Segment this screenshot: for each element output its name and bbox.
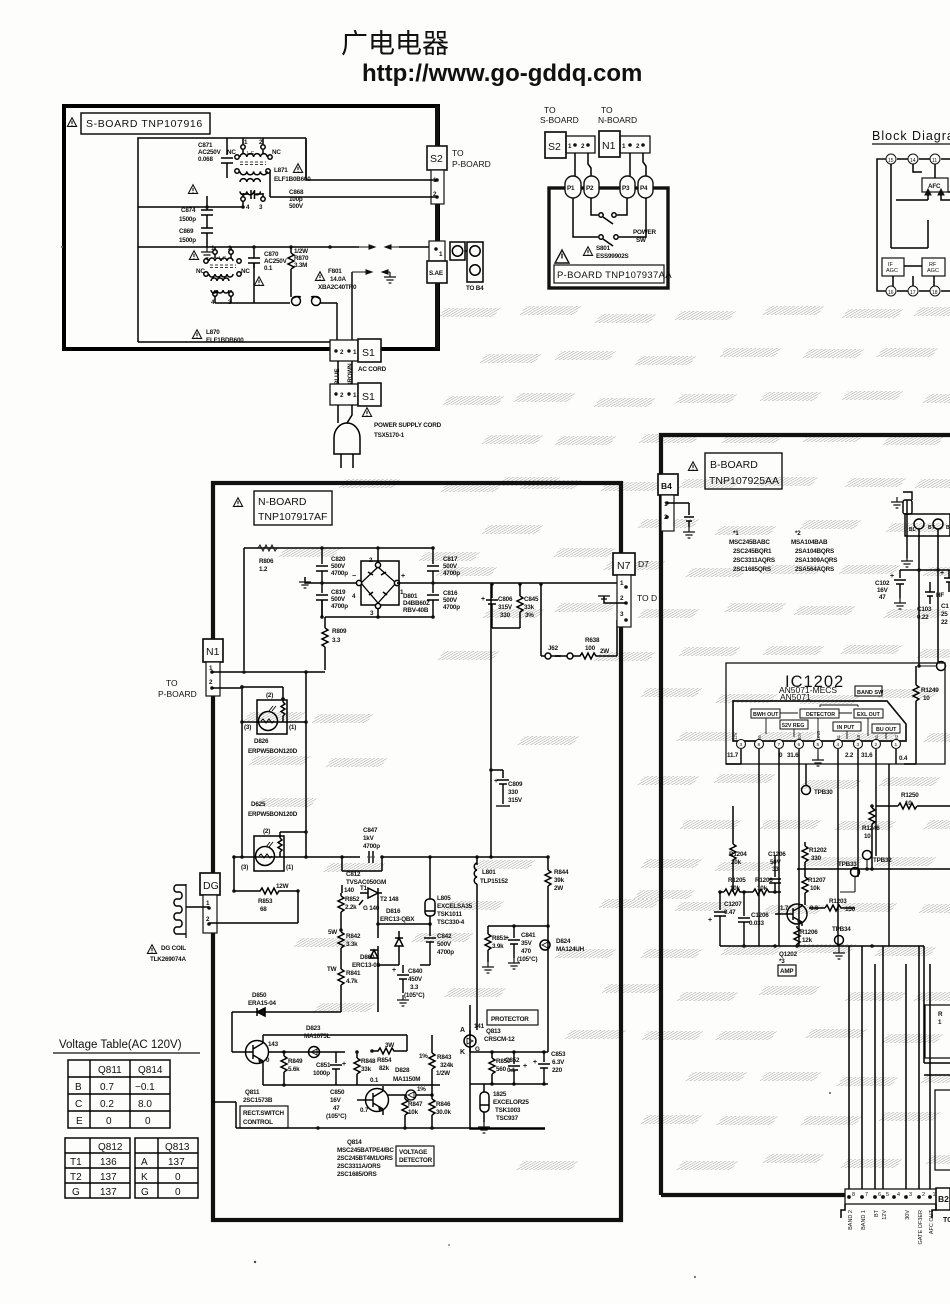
svg-text:N1: N1 [602,140,616,152]
svg-text:50V: 50V [770,859,782,866]
thyristor T1/T2 [359,888,382,905]
svg-text:AGC: AGC [886,268,898,274]
svg-text:ERC13-08: ERC13-08 [352,962,380,969]
svg-text:1: 1 [938,1019,942,1026]
svg-text:4: 4 [897,1192,900,1198]
svg-text:*2: *2 [795,530,801,537]
wire left drop x244 [243,548,245,670]
svg-text:AMP: AMP [780,968,793,975]
capacitor C840 [397,965,409,993]
RCA jack pair to B4 [450,242,483,282]
svg-text:8.0: 8.0 [138,1099,152,1110]
svg-text:137: 137 [100,1187,117,1198]
svg-text:0.47: 0.47 [724,909,736,916]
capacitor C1207 [714,892,726,946]
svg-text:C871: C871 [198,142,213,149]
diode D823 [309,1047,320,1058]
svg-text:8: 8 [852,1192,855,1198]
svg-text:R1250: R1250 [901,792,919,799]
svg-text:G: G [72,1187,80,1198]
svg-text:R638: R638 [585,637,600,644]
svg-text:Q814: Q814 [138,1065,163,1076]
resistor R1206 [744,889,781,895]
resistor R1203 [809,905,855,911]
svg-text:*3: *3 [779,958,785,965]
svg-text:MSC245BABC: MSC245BABC [729,539,770,546]
wires S2 pins to filter [270,140,437,197]
svg-text:R: R [938,1011,943,1018]
svg-text:2SC245BQR1: 2SC245BQR1 [733,548,772,555]
svg-text:R809: R809 [332,628,347,635]
test point TPB30 [802,786,811,795]
svg-text:TO: TO [601,105,613,115]
wires S1 to S1 plug [338,361,352,384]
svg-text:Q811: Q811 [98,1065,122,1076]
svg-text:17: 17 [910,290,916,296]
wire x306 drop to coupler rail [305,672,307,857]
capacitor C853 [538,1052,550,1084]
voltage table Q812 [65,1138,130,1198]
svg-text:NC: NC [196,268,205,275]
L870 label [192,330,201,339]
svg-text:ERPW5BON120D: ERPW5BON120D [248,811,298,818]
svg-text:Q811: Q811 [245,1089,260,1096]
svg-text:C: C [75,1099,82,1110]
scan hatch smudges (decorative) [244,306,950,1170]
S801 label [583,247,592,256]
capacitor C847 [360,851,382,863]
svg-text:4700p: 4700p [363,843,380,850]
svg-text:D801: D801 [403,593,418,600]
RF AGC box [922,258,945,276]
inner circuit frame left [138,138,306,342]
svg-text:3: 3 [259,204,263,211]
svg-text:C868: C868 [289,189,304,196]
svg-text:MSC245BATPE4/BC: MSC245BATPE4/BC [337,1147,394,1154]
svg-text:P4: P4 [640,185,648,192]
test point TPB32 [863,851,872,860]
svg-text:141: 141 [474,1023,485,1030]
connector N1 (P-board side) [599,131,620,157]
right edge partial box B [935,1090,950,1170]
wire main B+ y584 [322,583,626,617]
svg-text:P2: P2 [586,185,594,192]
svg-text:C852: C852 [505,1057,520,1064]
svg-text:2: 2 [636,143,640,150]
wires tuner to caps [900,529,950,666]
inner box IN PUT [833,722,861,731]
ground below C869 [201,247,213,258]
svg-text:+: + [523,1063,527,1070]
svg-text:1000p: 1000p [313,1070,330,1077]
svg-text:R1204: R1204 [729,851,747,858]
svg-text:7: 7 [778,742,781,748]
svg-text:47: 47 [333,1105,340,1112]
svg-text:2.2: 2.2 [845,752,854,759]
svg-text:315V: 315V [508,797,523,804]
svg-text:33: 33 [772,866,779,873]
svg-text:+: + [708,917,712,924]
svg-text:1/2W: 1/2W [294,248,308,255]
transformer L870 winding [204,250,241,296]
inner box EXL OUT [854,709,883,718]
svg-text:2: 2 [581,143,585,150]
svg-text:26: 26 [757,735,762,740]
capacitor C1208 [738,892,750,946]
svg-text:C819: C819 [331,589,346,596]
svg-text:31.6: 31.6 [787,752,799,759]
wires bridge [378,548,399,617]
power supply cord plug [334,405,360,468]
B-BOARD border [661,435,950,1195]
wire C812 net verticals [378,898,430,1012]
resistor R1208 [794,926,800,946]
node circle right [937,662,946,671]
svg-text:500V: 500V [289,203,304,210]
svg-text:39k: 39k [554,877,565,884]
svg-text:C840: C840 [408,968,423,975]
wire x548 down to protector [547,926,549,1052]
right partial wires [924,946,950,1075]
svg-text:3: 3 [909,1192,912,1198]
svg-text:1: 1 [895,742,898,748]
svg-text:D4BB60Z: D4BB60Z [403,600,430,607]
svg-text:G: G [141,1187,149,1198]
capacitor C102 [894,570,906,598]
svg-text:6: 6 [798,742,801,748]
svg-text:TSC330-4: TSC330-4 [437,919,465,926]
svg-text:A: A [141,1157,148,1168]
svg-text:R842: R842 [346,933,361,940]
svg-text:L871: L871 [274,167,288,174]
B2 side hooks [841,1204,936,1218]
svg-text:POWER: POWER [633,229,656,236]
svg-text:DETECTOR: DETECTOR [399,1157,433,1164]
svg-text:L805: L805 [437,895,451,902]
svg-text:+: + [890,573,894,580]
capacitor C817 [427,548,439,583]
svg-text:30V: 30V [905,1210,911,1220]
resistor R1205 [720,889,744,895]
svg-text:R849: R849 [288,1058,303,1065]
svg-text:CRSCM-12: CRSCM-12 [484,1036,515,1043]
svg-text:18: 18 [932,290,938,296]
svg-text:E: E [76,1116,83,1127]
inner box 52V REG [780,720,808,729]
svg-text:S8: S8 [856,734,861,740]
capacitor C851 [330,1052,342,1085]
wire N1 pin1 row [212,672,325,857]
S-BOARD border [64,106,438,349]
svg-text:143: 143 [268,1041,279,1048]
svg-text:TO B4: TO B4 [466,285,484,292]
svg-text:12V: 12V [733,732,738,740]
svg-text:0.2: 0.2 [100,1099,114,1110]
svg-text:30V: 30V [797,732,802,740]
voltage table Q813 [135,1138,198,1198]
svg-text:−: − [352,573,356,580]
svg-text:TO: TO [452,148,464,158]
gnd stub N7 pin2 [604,596,626,603]
ground stub at C819 [305,577,322,583]
svg-text:R854: R854 [377,1057,392,1064]
svg-text:C820: C820 [331,556,346,563]
B2 box [936,1188,950,1210]
svg-text:BWH OUT: BWH OUT [753,712,779,718]
wire C819/C820 bottom joins rail [321,600,323,617]
svg-text:BT: BT [874,1209,880,1217]
svg-text:GATE OF3ER: GATE OF3ER [918,1210,924,1244]
svg-text:20k: 20k [731,859,742,866]
svg-text:0: 0 [175,1172,181,1183]
svg-text:136: 136 [100,1157,117,1168]
svg-text:16V: 16V [330,1097,342,1104]
photocoupler D826 [242,687,306,734]
svg-text:25: 25 [941,611,948,618]
thyristor Q813 [464,1035,476,1047]
diode D824 [540,940,550,950]
svg-text:D823: D823 [306,1025,321,1032]
svg-text:D7: D7 [638,559,649,569]
svg-text:4700p: 4700p [443,604,460,611]
svg-text:S1: S1 [362,347,375,359]
capacitor C841 [508,926,520,958]
svg-text:CONTROL: CONTROL [243,1119,273,1126]
transformer L871 winding A [235,145,272,201]
svg-text:1%: 1% [419,1053,428,1060]
voltage table Q811/Q814 [68,1060,170,1128]
svg-text:150: 150 [845,906,856,913]
svg-text:2SA1309AQRS: 2SA1309AQRS [795,557,837,564]
svg-text:3W: 3W [385,1042,394,1049]
svg-text:12V: 12V [882,1210,888,1220]
PROTECTOR enclosure [470,1005,545,1129]
svg-text:F801: F801 [328,268,342,275]
svg-text:TSC937: TSC937 [496,1115,519,1122]
resistor R1246 [869,806,875,869]
DG COIL label [147,945,156,954]
svg-text:TSX5170-1: TSX5170-1 [374,432,405,439]
Q812 transistor [366,1089,389,1112]
svg-text:500V: 500V [443,597,458,604]
svg-text:1: 1 [622,143,626,150]
svg-text:4.7k: 4.7k [346,978,358,985]
wire base row y1052 [269,1051,345,1053]
wire y926 C841 net [488,925,548,927]
inner box DETECTOR [800,709,839,718]
svg-text:330: 330 [500,612,511,619]
svg-text:B2: B2 [894,734,899,740]
svg-text:EXL OUT: EXL OUT [857,712,881,718]
P-BOARD label box [554,265,664,283]
svg-text:DG COIL: DG COIL [161,945,186,952]
svg-text:S2: S2 [548,141,561,153]
RECT SWITCH CONTROL box [240,1106,288,1128]
svg-text:S.AE: S.AE [429,270,443,277]
svg-text:AC250V: AC250V [198,149,222,156]
svg-text:+: + [481,596,485,603]
svg-text:33k: 33k [361,1066,372,1073]
svg-text:TNP107917AF: TNP107917AF [258,511,327,523]
svg-text:MSA104BAB: MSA104BAB [791,539,828,546]
svg-text:500V: 500V [331,563,346,570]
DG connector [200,873,220,933]
svg-text:3.9k: 3.9k [492,943,504,950]
svg-text:DG: DG [203,880,219,892]
bottom rails Q811 area [263,1035,440,1085]
svg-text:R847: R847 [408,1101,423,1108]
resistor R846 [429,1095,435,1128]
wire y869 [797,868,950,870]
svg-text:500V: 500V [437,941,452,948]
svg-text:P3: P3 [622,185,630,192]
svg-text:5.6k: 5.6k [288,1066,300,1073]
svg-text:5W: 5W [328,929,337,936]
capacitor C870 [248,255,260,268]
svg-text:http://www.go-gddq.com: http://www.go-gddq.com [362,60,642,87]
resistor R843 [429,1035,435,1095]
resistor R841 [338,967,344,1012]
svg-text:137: 137 [100,1172,117,1183]
svg-text:TPB32: TPB32 [873,857,892,864]
svg-text:11.7: 11.7 [727,752,739,759]
svg-text:0.7: 0.7 [100,1082,114,1093]
svg-text:10k: 10k [730,885,741,892]
connector S1 (cord side) [330,383,381,406]
svg-text:2SC3311A/ORS: 2SC3311A/ORS [337,1163,380,1170]
bottom rail y946 [720,945,924,947]
svg-text:0.1: 0.1 [507,1067,516,1074]
svg-text:1500p: 1500p [179,237,196,244]
svg-text:31.6: 31.6 [861,752,873,759]
plug P3 [620,176,635,198]
wire C871 top [226,138,228,155]
B-BOARD label box [705,453,782,489]
svg-text:S-BOARD: S-BOARD [540,115,579,125]
svg-text:Q812: Q812 [98,1142,123,1153]
svg-text:1825: 1825 [493,1091,507,1098]
connector S.AE [427,241,447,283]
svg-text:C841: C841 [521,932,536,939]
svg-text:TLK269074A: TLK269074A [150,956,186,963]
PROTECTOR label box [487,1010,538,1025]
svg-text:L870: L870 [206,329,220,336]
connector S1 (AC cord, on board) [330,339,381,362]
svg-text:1500p: 1500p [179,216,196,223]
svg-text:MA1075L: MA1075L [304,1033,331,1040]
resistor R842 [338,930,344,967]
svg-text:2W: 2W [554,885,563,892]
svg-text:IN PUT: IN PUT [837,725,855,731]
S-BOARD label box [81,113,210,134]
svg-text:33k: 33k [524,604,535,611]
svg-text:T2 148: T2 148 [380,896,399,903]
B4 pin wires + cap to gnd [667,503,694,527]
svg-text:TO D: TO D [637,593,657,603]
resistor R1249 [904,666,919,764]
svg-text:(105°C): (105°C) [517,955,537,963]
long verticals to B2 [849,946,930,1193]
svg-text:2SA564AQRS: 2SA564AQRS [795,566,834,573]
B-BOARD bottom edge [661,1193,845,1197]
crystal 1825 [480,1084,489,1122]
resistor R1202 [802,842,808,877]
svg-text:R806: R806 [259,558,274,565]
svg-text:0.068: 0.068 [198,156,213,163]
svg-text:B1: B1 [874,734,879,740]
wire L871 pin leads up [243,138,306,177]
svg-text:0.1: 0.1 [370,1077,379,1084]
svg-text:C850: C850 [330,1089,345,1096]
svg-text:ELF1BDB600: ELF1BDB600 [206,337,244,344]
bridge rectifier D801 [356,561,399,609]
svg-text:D828: D828 [395,1067,410,1074]
N-BOARD border [213,483,621,1220]
IC pin ground pin5 [817,749,819,755]
svg-text:C845: C845 [524,596,539,603]
resistor R847 [402,1095,408,1128]
diode D850 + wire [232,1008,341,1040]
svg-text:C816: C816 [443,590,458,597]
svg-text:470: 470 [521,948,532,955]
capacitor C868 [243,190,263,199]
svg-text:14.0A: 14.0A [330,276,346,283]
svg-text:C1: C1 [941,603,949,610]
svg-text:7: 7 [865,1192,868,1198]
wire N1 pin2 down-feed [212,688,242,857]
svg-text:N7: N7 [617,560,631,572]
fuse F801 [315,272,324,281]
wire node row y207 [138,196,243,210]
B2 rotated labels [848,1209,935,1244]
rotated pin labels [733,731,899,740]
wire main AC row y247 [138,247,359,303]
svg-text:R1202: R1202 [809,847,827,854]
svg-text:T1: T1 [360,885,368,892]
svg-text:0.22: 0.22 [917,614,929,621]
capacitor C871 [221,158,233,178]
svg-text:2: 2 [922,1192,925,1198]
svg-text:4: 4 [246,204,250,211]
svg-text:12k: 12k [802,937,813,944]
svg-text:MA124UH: MA124UH [556,946,585,953]
svg-text:1: 1 [244,139,248,146]
R844 branch [545,857,551,926]
svg-text:B1: B1 [836,734,841,740]
svg-text:C102: C102 [875,580,890,587]
svg-text:R841: R841 [346,970,361,977]
svg-text:82k: 82k [379,1065,390,1072]
svg-text:AC250V: AC250V [264,258,288,265]
svg-text:35V: 35V [521,940,533,947]
inductor L805 [425,857,435,936]
svg-text:+: + [533,1059,537,1066]
svg-text:TSK1011: TSK1011 [437,911,463,918]
svg-text:52V REG: 52V REG [782,723,804,729]
svg-text:PROTECTOR: PROTECTOR [491,1016,529,1023]
svg-text:2SC245BT4M1/ORS: 2SC245BT4M1/ORS [337,1155,393,1162]
svg-text:R1206: R1206 [800,929,818,936]
big warning triangle P-board [555,250,569,263]
svg-text:S801: S801 [596,245,611,252]
svg-text:TPB30: TPB30 [814,789,833,796]
svg-text:S2: S2 [430,153,443,165]
svg-text:NC: NC [227,149,236,156]
inner box BU OUT [872,724,900,733]
svg-text:10: 10 [923,695,930,702]
svg-text:1.7: 1.7 [780,905,789,912]
svg-text:Voltage Table(AC 120V): Voltage Table(AC 120V) [59,1039,182,1051]
